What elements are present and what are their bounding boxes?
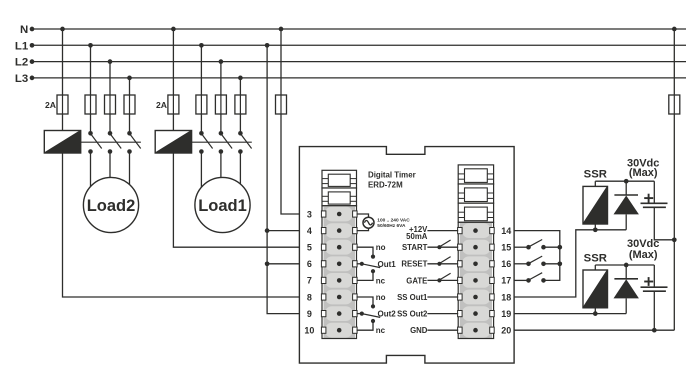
svg-text:SSR: SSR [584,168,607,180]
svg-text:2A: 2A [156,100,167,110]
svg-text:Out2: Out2 [378,310,397,319]
svg-text:Load1: Load1 [198,197,247,215]
svg-text:Out1: Out1 [378,260,397,269]
svg-text:50/60Hz 6VA: 50/60Hz 6VA [377,223,406,229]
svg-text:no: no [376,293,386,302]
svg-text:16: 16 [501,259,511,269]
svg-text:(Max): (Max) [629,167,658,179]
svg-text:RESET: RESET [401,260,427,269]
svg-text:14: 14 [501,226,511,236]
svg-text:50mA: 50mA [406,232,428,241]
svg-text:L3: L3 [15,73,28,85]
svg-text:no: no [376,243,386,252]
svg-text:(Max): (Max) [629,249,658,261]
svg-text:9: 9 [307,309,312,319]
svg-text:20: 20 [501,326,511,336]
svg-text:GATE: GATE [406,276,427,285]
svg-text:17: 17 [501,276,511,286]
svg-text:N: N [20,24,28,36]
svg-text:3: 3 [307,209,312,219]
svg-text:7: 7 [307,276,312,286]
svg-text:19: 19 [501,309,511,319]
svg-text:100 .. 240 VAC: 100 .. 240 VAC [377,217,410,223]
svg-text:L2: L2 [15,57,28,69]
svg-text:2A: 2A [45,100,56,110]
svg-text:nc: nc [376,276,386,285]
svg-text:10: 10 [304,326,314,336]
svg-text:GND: GND [410,326,428,335]
svg-text:8: 8 [307,292,312,302]
svg-text:15: 15 [501,243,511,253]
svg-text:6: 6 [307,259,312,269]
svg-text:nc: nc [376,326,386,335]
svg-text:Digital Timer: Digital Timer [368,170,416,179]
svg-text:5: 5 [307,243,312,253]
svg-text:L1: L1 [15,40,29,52]
svg-text:4: 4 [307,226,312,236]
svg-text:ERD-72M: ERD-72M [368,180,403,189]
svg-text:SS Out2: SS Out2 [397,310,428,319]
svg-text:SS Out1: SS Out1 [397,293,428,302]
svg-text:SSR: SSR [584,253,607,265]
svg-text:START: START [402,243,428,252]
svg-text:Load2: Load2 [87,197,136,215]
svg-text:18: 18 [501,292,511,302]
